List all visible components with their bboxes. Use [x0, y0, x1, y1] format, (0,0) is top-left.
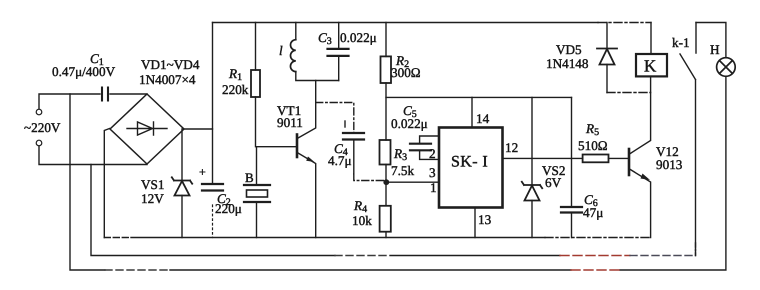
- svg-text:510Ω: 510Ω: [578, 138, 608, 153]
- svg-text:4.7μ: 4.7μ: [328, 153, 352, 168]
- svg-text:47μ: 47μ: [583, 205, 603, 220]
- +V rail top: [213, 22, 599, 24]
- svg-text:14: 14: [476, 111, 490, 126]
- inductor L: [296, 23, 339, 81]
- svg-text:10k: 10k: [352, 213, 372, 228]
- svg-text:R1: R1: [228, 66, 242, 83]
- wire +V left column down to C2: [212, 23, 214, 185]
- svg-text:H: H: [710, 42, 720, 57]
- wire to lamp: [696, 23, 726, 58]
- svg-text:k-1: k-1: [672, 35, 690, 50]
- svg-text:1: 1: [430, 180, 437, 195]
- pin 13 wire: [474, 208, 476, 238]
- svg-text:+: +: [199, 165, 206, 179]
- svg-text:l: l: [279, 43, 283, 58]
- wire collector to C4 dash-dot: [316, 103, 354, 134]
- svg-text:1N4148: 1N4148: [546, 56, 589, 71]
- svg-text:0.47μ/400V: 0.47μ/400V: [52, 64, 116, 79]
- wire mains drop A to outer bottom bus to lamp: [70, 77, 726, 270]
- wire bridge right corner to C2 column: [184, 128, 213, 130]
- svg-text:R5: R5: [585, 121, 599, 138]
- capacitor C6: [561, 97, 582, 237]
- inner bus dashed segment: [335, 255, 390, 257]
- resonator B: [244, 147, 270, 238]
- wire base node to VT1: [257, 146, 297, 148]
- svg-text:SK- I: SK- I: [451, 154, 488, 171]
- diode VD5: [597, 23, 617, 93]
- capacitor C5: [410, 136, 439, 159]
- resistor R1: [251, 23, 260, 147]
- svg-text:0.022μ: 0.022μ: [340, 30, 377, 45]
- svg-text:~220V: ~220V: [24, 120, 61, 135]
- +V supply wire to C6 column: [386, 96, 572, 98]
- relay K box: [636, 54, 667, 76]
- ground rail dash-dot right end: [545, 237, 651, 239]
- svg-text:7.5k: 7.5k: [391, 163, 414, 178]
- svg-text:1N4007×4: 1N4007×4: [139, 72, 196, 87]
- wire bridge left corner to ground rail: [104, 129, 109, 238]
- bridge inner diode: [127, 122, 167, 135]
- ground rail: [131, 237, 545, 239]
- svg-text:9011: 9011: [277, 115, 303, 130]
- lamp H: [717, 58, 736, 77]
- svg-text:220k: 220k: [222, 82, 249, 97]
- pin 14 wire: [471, 97, 473, 127]
- svg-text:12: 12: [505, 140, 518, 155]
- svg-text:VD5: VD5: [556, 42, 582, 57]
- IC SK-1 box: [439, 128, 503, 208]
- transistor VT1 collector wire: [298, 81, 316, 139]
- pin 12 wire: [503, 157, 583, 159]
- svg-text:12V: 12V: [141, 191, 164, 206]
- +V rail dash-dot segment to relay: [598, 22, 651, 24]
- terminal lower: [36, 140, 42, 146]
- transistor V12 emitter wire: [630, 169, 651, 238]
- svg-text:B: B: [245, 170, 254, 185]
- wire rail to relay K: [650, 23, 652, 55]
- svg-text:C3: C3: [318, 30, 332, 47]
- wire mains top from terminal to bridge top via C1: [39, 94, 147, 109]
- transistor V12 collector wire: [630, 76, 651, 154]
- terminal upper: [36, 109, 42, 115]
- capacitor C3: [328, 23, 349, 81]
- inner bus gray dashed end segment: [630, 255, 696, 257]
- wire R3 to R4: [385, 165, 387, 206]
- transistor VT1 emitter wire: [298, 153, 316, 238]
- svg-text:9013: 9013: [656, 157, 683, 172]
- svg-text:2: 2: [429, 146, 436, 161]
- resistor R4: [380, 206, 391, 238]
- svg-text:VS1: VS1: [141, 177, 164, 192]
- bridge rectifier VD1-VD4 diamond: [110, 94, 184, 164]
- wire mains drop B to inner bottom bus to switch: [91, 80, 696, 256]
- zener VS2: [522, 97, 542, 237]
- capacitor C1: [102, 88, 108, 101]
- svg-text:13: 13: [478, 212, 492, 227]
- wire VD5 to V12 collector dash-dot: [607, 92, 651, 94]
- wire C2 to ground dotted: [212, 205, 214, 238]
- svg-text:0.022μ: 0.022μ: [391, 116, 428, 131]
- transistor V12 emitter arrow: [641, 174, 651, 181]
- resistor R5: [583, 155, 628, 163]
- svg-text:300Ω: 300Ω: [391, 65, 421, 80]
- svg-text:R3: R3: [393, 146, 407, 163]
- svg-text:220μ: 220μ: [215, 201, 242, 216]
- node junction dot: [383, 179, 389, 185]
- ground rail dashed left end: [104, 237, 131, 239]
- inner bus red artifact segment: [560, 255, 630, 257]
- transistor VT1 base bar: [296, 135, 299, 158]
- outer bus red artifact segment: [571, 269, 620, 271]
- capacitor C2: [202, 184, 223, 191]
- svg-text:VD1~VD4: VD1~VD4: [141, 57, 200, 72]
- wire C4 to node dash-dot: [353, 140, 355, 175]
- svg-text:K: K: [644, 57, 657, 76]
- resistor R2: [381, 23, 392, 141]
- transistor V12 base bar: [628, 149, 631, 175]
- resistor R3: [380, 140, 391, 165]
- transistor VT1 emitter arrow: [306, 157, 314, 163]
- capacitor C4: [343, 121, 364, 140]
- zener VS1: [172, 129, 192, 238]
- wire node to SK pins: [386, 181, 439, 183]
- svg-text:6V: 6V: [545, 175, 562, 190]
- outer bus dashed segment: [105, 269, 170, 271]
- svg-text:3: 3: [429, 165, 436, 180]
- switch k-1: [680, 23, 696, 80]
- wire mains bottom from terminal to bridge bottom: [39, 146, 147, 165]
